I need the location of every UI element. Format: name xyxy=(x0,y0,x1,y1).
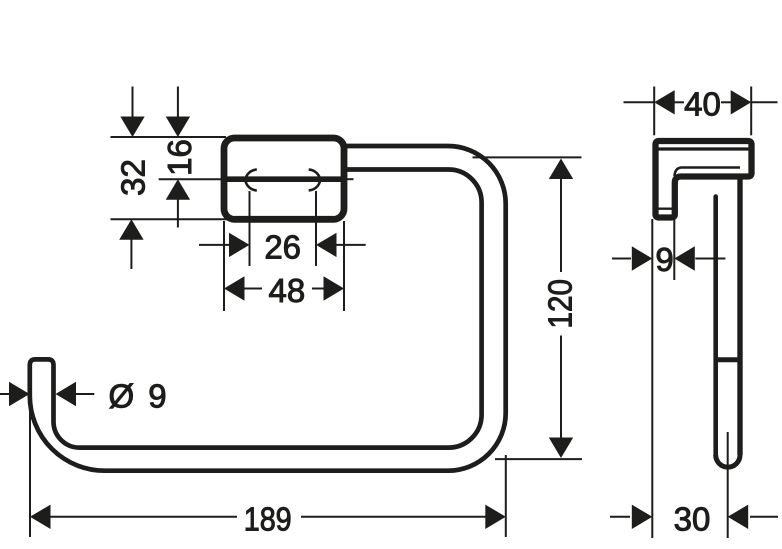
extension line: 26 right xyxy=(315,191,317,266)
extension line: 40 left xyxy=(653,87,655,136)
side view: cover joint line xyxy=(659,147,749,150)
svg-text:9: 9 xyxy=(655,241,673,278)
right snap mark ) xyxy=(309,170,321,191)
dimension 9: line and arrows xyxy=(612,246,725,270)
extension line: 189 left xyxy=(29,402,31,537)
extension line: 9 right xyxy=(673,219,675,280)
svg-text:Ø 9: Ø 9 xyxy=(108,378,169,415)
svg-text:30: 30 xyxy=(674,501,711,538)
extension line: plate mid (right stub) xyxy=(343,178,354,180)
extension line: 189 right xyxy=(505,455,507,537)
dimension 120: line and arrows xyxy=(549,159,573,459)
extension line: 26 left xyxy=(249,191,251,266)
svg-text:16: 16 xyxy=(161,139,198,176)
svg-text:40: 40 xyxy=(684,86,721,123)
plate joint line xyxy=(227,176,341,182)
extension line: 120 bottom xyxy=(495,458,582,460)
side view: bracket and wall strip outline xyxy=(656,141,752,218)
dimension 26: line and arrows xyxy=(199,233,366,257)
dimension diameter 9: arrows xyxy=(0,382,94,406)
extension line: 9 left / 30 left xyxy=(651,219,653,538)
extension line: plate bottom (left, 32 ref) xyxy=(111,218,229,220)
side view: tube joint crossbar xyxy=(716,357,740,362)
svg-text:48: 48 xyxy=(269,272,306,309)
svg-text:120: 120 xyxy=(542,279,579,329)
wall plate (front view) xyxy=(224,138,344,219)
side view: tube inner (left) line xyxy=(713,197,718,456)
dimension 30: line and arrows xyxy=(610,505,778,529)
side view: strip joint line xyxy=(656,207,675,209)
extension line: 30 right xyxy=(727,432,729,538)
dimension 189: line and arrows xyxy=(30,505,506,529)
svg-text:26: 26 xyxy=(264,229,301,266)
dimension 16: bottom arrow xyxy=(166,179,190,227)
left snap mark ( xyxy=(245,170,256,191)
extension line: 40 right xyxy=(750,87,752,136)
extension line: 48 right xyxy=(343,221,345,311)
dimension 48: line and arrows xyxy=(224,276,344,300)
svg-text:32: 32 xyxy=(115,159,152,196)
extension line: plate mid (left, 16 ref) xyxy=(159,178,225,180)
side view: tube bottom U xyxy=(716,455,740,467)
side view: hook inner top line xyxy=(675,168,741,177)
dimension 16: top arrow xyxy=(166,87,190,138)
towel ring tube outline (front view) xyxy=(30,146,506,471)
side view: tube outer (right) line xyxy=(737,177,742,456)
extension line: 120 top xyxy=(473,156,582,158)
extension line: 48 left xyxy=(223,221,225,311)
dimension 32: bottom arrow xyxy=(119,219,143,269)
svg-text:189: 189 xyxy=(244,501,292,538)
extension line: plate top (left) xyxy=(111,136,227,138)
dimension 40: line and arrows xyxy=(624,90,778,114)
dimension 32: top arrow xyxy=(120,87,144,138)
